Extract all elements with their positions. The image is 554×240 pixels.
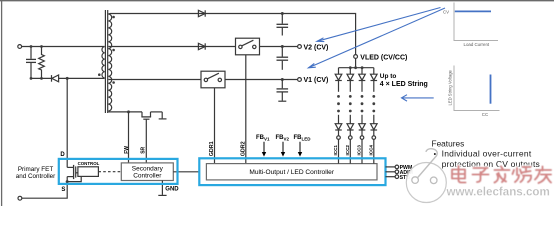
transformer secondary tap dot mid	[112, 49, 115, 52]
LED strings columns	[335, 68, 342, 164]
node FW junction	[127, 110, 130, 113]
wire sense to control	[67, 176, 81, 181]
svg-text:ICC2: ICC2	[345, 145, 350, 156]
svg-text:Multi-Output / LED Controller: Multi-Output / LED Controller	[249, 169, 334, 176]
multi-output controller inner box	[206, 164, 377, 180]
arrow FBV2 input	[281, 142, 285, 157]
border frame top	[0, 0, 554, 2]
diode snubber	[52, 75, 59, 82]
node input junction a	[30, 45, 33, 48]
terminal bottom left	[18, 196, 22, 200]
diode D1	[198, 10, 205, 16]
wire drain vertical	[66, 78, 68, 167]
capacitor C1	[277, 14, 289, 36]
arrow FBLED input	[298, 142, 302, 157]
transformer secondary tap dot low	[112, 81, 115, 84]
capacitor snubber	[26, 47, 36, 79]
arrow CV to V1	[309, 8, 446, 68]
rail2 wire left	[108, 46, 235, 48]
pin PWM	[386, 165, 399, 169]
node snubber junction b	[40, 77, 43, 80]
svg-text:FBV1: FBV1	[256, 135, 270, 142]
svg-text:Load Current: Load Current	[464, 42, 490, 47]
blue arrows	[309, 8, 446, 102]
node snubber junction a	[30, 77, 33, 80]
FB arrows	[262, 142, 302, 157]
control box	[78, 167, 99, 177]
node rail1 cap	[281, 12, 284, 15]
node rail3 cap	[281, 78, 284, 81]
rail3 wire left	[108, 79, 201, 81]
rail2 wire right	[260, 46, 298, 48]
transistor Q1 primary FET	[67, 165, 78, 182]
svg-text:GDR2: GDR2	[240, 141, 246, 156]
svg-text:VLED (CV/CC): VLED (CV/CC)	[360, 54, 407, 61]
graph CV load current	[443, 3, 498, 47]
svg-text:SR: SR	[141, 146, 147, 153]
svg-text:www.elecfans.com: www.elecfans.com	[446, 185, 550, 198]
pin STB	[386, 175, 399, 179]
node source sense	[66, 180, 69, 183]
wire VLED to bus	[355, 58, 357, 67]
svg-text:FBV2: FBV2	[276, 135, 290, 142]
transformer secondary polarity dot top	[112, 16, 115, 19]
transformer T1 core	[105, 10, 107, 113]
svg-text:Primary FET: Primary FET	[18, 166, 53, 173]
resistor snubber	[39, 47, 45, 79]
wire input top	[22, 46, 105, 48]
svg-text:ICC1: ICC1	[333, 145, 338, 156]
node rail2 cap	[281, 45, 284, 48]
transformer primary winding	[102, 47, 105, 79]
svg-text:CONTROL: CONTROL	[78, 161, 100, 166]
svg-text:Individual over-current: Individual over-current	[442, 149, 532, 159]
wire source return	[22, 182, 67, 199]
rail3 wire right	[225, 79, 298, 81]
wire pins right	[386, 165, 399, 178]
svg-text:ICC4: ICC4	[368, 145, 373, 156]
transformer secondary winding	[108, 14, 111, 111]
node bus dots	[349, 66, 364, 69]
rail1 wire	[108, 14, 355, 55]
LED string 3	[359, 68, 366, 164]
transistor Q2 sync rectifier	[141, 112, 162, 119]
transformer primary polarity dot	[98, 73, 101, 76]
features text	[432, 138, 540, 169]
text labels circuit	[60, 45, 427, 193]
svg-text:FW: FW	[124, 146, 130, 154]
svg-text:GDR1: GDR1	[209, 141, 215, 156]
svg-text:S: S	[61, 187, 65, 193]
svg-text:V2 (CV): V2 (CV)	[304, 45, 329, 52]
input terminal	[18, 45, 22, 49]
wire snubber bottom	[31, 77, 51, 79]
svg-text:LED String Voltage: LED String Voltage	[448, 69, 453, 105]
watermark logo circle	[406, 149, 446, 203]
arrow FBV1 input	[262, 142, 266, 157]
svg-text:GND: GND	[165, 187, 179, 193]
wire secondary bottom	[108, 111, 142, 113]
svg-text:Features: Features	[432, 138, 465, 148]
wire dashed control link	[98, 171, 121, 173]
LED string 2	[347, 68, 354, 164]
terminal V1	[298, 78, 302, 82]
wire diode to drain node	[59, 77, 105, 79]
border frame left	[1, 0, 3, 206]
LED string 1	[338, 68, 340, 74]
svg-text:D: D	[60, 152, 65, 158]
ground after Q2	[159, 112, 167, 119]
wire SR gate	[145, 119, 147, 163]
wire GND	[158, 181, 166, 196]
svg-text:4 × LED String: 4 × LED String	[380, 81, 428, 88]
svg-text:and Controller: and Controller	[16, 173, 56, 180]
wire GDR1	[214, 88, 216, 164]
svg-text:Up to: Up to	[380, 73, 397, 80]
svg-text:Controller: Controller	[133, 173, 162, 180]
node drain junction	[66, 77, 69, 80]
switch SW3	[201, 71, 225, 88]
svg-text:Secondary: Secondary	[132, 166, 164, 173]
terminal V2	[298, 45, 302, 49]
capacitor C3	[277, 80, 289, 102]
diode D2	[198, 43, 205, 49]
LED bus	[339, 67, 374, 69]
LED string 4	[371, 68, 378, 164]
graph CC LED string voltage	[448, 66, 500, 118]
svg-text:CC: CC	[482, 112, 488, 117]
switch SW2	[236, 38, 260, 55]
arrow CV to V2	[317, 8, 441, 42]
arrow CC to LED strings	[402, 95, 434, 101]
svg-text:CV: CV	[443, 9, 449, 14]
capacitor C2	[277, 47, 289, 70]
wire GDR2	[245, 55, 247, 164]
blue box primary controller	[59, 159, 178, 184]
secondary controller box	[121, 163, 173, 181]
svg-text:ICC3: ICC3	[357, 145, 362, 156]
wire FW	[128, 112, 130, 163]
node input junction b	[40, 45, 43, 48]
svg-text:V1 (CV): V1 (CV)	[304, 77, 329, 84]
svg-text:FBLED: FBLED	[294, 135, 312, 142]
blue box multi-output controller	[199, 158, 385, 185]
pin ADIM	[386, 170, 399, 174]
terminal VLED	[354, 55, 358, 59]
wire secondary to multi controller	[173, 171, 199, 173]
